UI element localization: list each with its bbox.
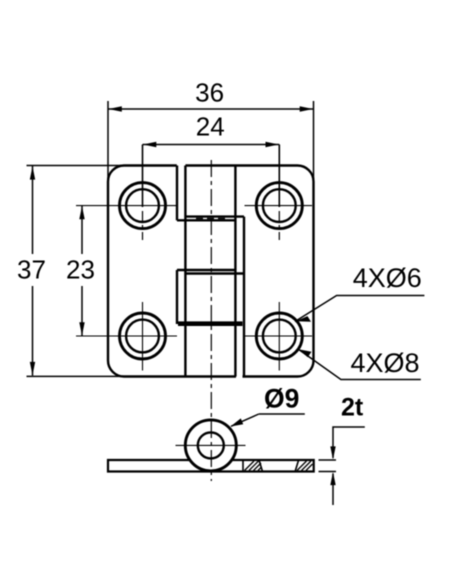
svg-text:23: 23 [66, 255, 95, 285]
svg-text:2t: 2t [341, 394, 364, 422]
svg-text:4XØ8: 4XØ8 [351, 348, 420, 378]
svg-text:24: 24 [196, 112, 225, 142]
svg-text:4XØ6: 4XØ6 [353, 263, 422, 293]
svg-text:Ø9: Ø9 [264, 384, 299, 414]
svg-text:36: 36 [195, 78, 224, 108]
svg-text:37: 37 [17, 255, 46, 285]
